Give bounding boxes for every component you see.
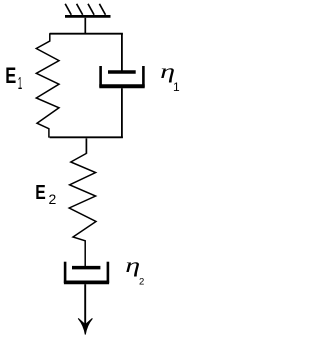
svg-text:1: 1: [173, 80, 180, 94]
svg-text:2: 2: [139, 277, 144, 288]
ground hatch 1: [65, 4, 71, 15]
ground hatch 4: [99, 4, 105, 15]
wire: tap down to spring E2: [85, 138, 87, 153]
wire: link from support to parallel branch: [84, 18, 86, 34]
dashpot eta1 cup bottom: [99, 84, 144, 88]
dashpot eta2 cup left wall: [64, 262, 67, 283]
wire: bottom connector of parallel branch: [50, 136, 123, 138]
ground hatch 2: [77, 4, 83, 15]
svg-text:E: E: [35, 181, 46, 204]
svg-text:1: 1: [18, 73, 23, 93]
svg-text:2: 2: [49, 191, 57, 207]
dashpot eta2 cup bottom: [64, 280, 109, 284]
wire: dashpot 1 bottom rod: [121, 88, 123, 137]
dashpot eta1 piston: [108, 70, 136, 74]
dashpot eta1 cup right wall: [142, 66, 145, 87]
wire: dashpot 1 top rod: [121, 34, 123, 72]
dashpot eta2 piston: [72, 266, 100, 270]
spring E2: [69, 153, 96, 266]
ground support bar: [65, 15, 111, 18]
dashpot eta2 cup right wall: [107, 262, 110, 283]
dashpot eta1 cup left wall: [99, 66, 102, 87]
svg-text:E: E: [5, 63, 16, 88]
wire: top connector of parallel branch: [50, 33, 123, 35]
spring E1: [36, 33, 59, 137]
svg-text:η: η: [125, 256, 140, 277]
ground hatch 3: [88, 4, 94, 15]
wire: arrow shaft: [84, 284, 86, 330]
arrowhead (applied force direction): [78, 318, 92, 334]
